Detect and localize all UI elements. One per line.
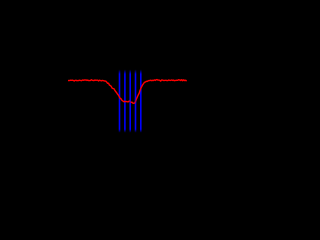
marker line 2 (blue) <box>124 70 126 133</box>
spectrum trace (red absorption dip) <box>68 80 187 104</box>
marker line 4 (blue) <box>135 70 137 133</box>
marker line 1 (blue) <box>119 70 121 133</box>
marker line 5 (blue) <box>140 70 142 133</box>
blue overlay at line 4 crossing <box>135 99 137 104</box>
blue overlay at line 3 crossing <box>129 99 131 104</box>
marker line 3 (blue) <box>129 70 131 133</box>
